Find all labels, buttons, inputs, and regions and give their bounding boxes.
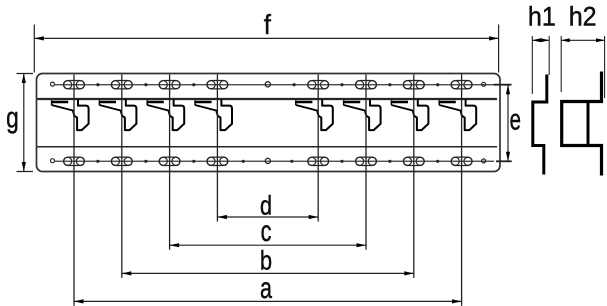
dimension e ticks bbox=[494, 84, 512, 86]
bottom slot row centre line bbox=[55, 160, 494, 162]
dimension e line bbox=[507, 85, 509, 162]
bottom row centre hole bbox=[265, 158, 270, 163]
top row left end hole bbox=[51, 82, 55, 86]
dimension c line bbox=[170, 244, 366, 246]
rail body outline bbox=[37, 74, 501, 172]
bottom row right end hole bbox=[482, 159, 486, 163]
top row slot 3 bbox=[159, 81, 180, 89]
dimension g ticks bbox=[17, 73, 34, 75]
dimension a line bbox=[74, 300, 462, 302]
top row pilot dot bbox=[144, 83, 147, 86]
dimension h1 extension lines bbox=[531, 36, 533, 94]
bottom row slot 7 bbox=[403, 157, 424, 165]
top row slot 5 bbox=[308, 81, 329, 89]
dimension h1 line bbox=[532, 39, 549, 41]
dimension d extension lines bbox=[216, 75, 218, 222]
hook tab 6 bbox=[343, 99, 381, 130]
bottom row left end hole bbox=[51, 159, 55, 163]
hook tab 7 bbox=[391, 99, 429, 130]
bottom row pilot dot bbox=[340, 160, 343, 163]
bottom row slot 4 bbox=[207, 157, 228, 165]
svg-text:g: g bbox=[6, 100, 19, 134]
bottom row pilot dot bbox=[290, 160, 293, 163]
top row right end hole bbox=[482, 82, 486, 86]
svg-text:e: e bbox=[510, 104, 521, 137]
dimension g line bbox=[23, 74, 25, 172]
dimension c extension lines bbox=[169, 75, 171, 250]
dimension b extension lines bbox=[121, 75, 123, 278]
dimension h2 line bbox=[561, 39, 604, 41]
bottom row pilot dot bbox=[192, 160, 195, 163]
top row slot 1 bbox=[64, 81, 85, 89]
svg-text:c: c bbox=[261, 213, 272, 247]
top row slot 8 bbox=[451, 81, 472, 89]
svg-text:a: a bbox=[260, 270, 272, 304]
bottom row pilot dot bbox=[436, 160, 439, 163]
hook tab 4 bbox=[194, 99, 232, 130]
top row pilot dot bbox=[96, 83, 99, 86]
dimension a extension lines bbox=[73, 75, 75, 306]
profile section h1 (Z-rail) bbox=[533, 75, 547, 175]
bottom row slot 5 bbox=[308, 157, 329, 165]
dimension h2 extension lines bbox=[560, 36, 562, 92]
profile section h2 inner web bbox=[587, 102, 590, 146]
top row pilot dot bbox=[388, 83, 391, 86]
top row pilot dot bbox=[293, 83, 296, 86]
svg-text:h1: h1 bbox=[528, 1, 556, 32]
bottom row slot 2 bbox=[111, 157, 132, 165]
top row pilot dot bbox=[340, 83, 343, 86]
dimension f extension lines bbox=[33, 25, 35, 73]
top row slot 2 bbox=[111, 81, 132, 89]
top row slot 6 bbox=[356, 81, 377, 89]
bottom row pilot dot bbox=[388, 160, 391, 163]
bottom row pilot dot bbox=[242, 160, 245, 163]
svg-text:f: f bbox=[264, 9, 272, 40]
top row pilot dot bbox=[192, 83, 195, 86]
top row centre hole bbox=[265, 82, 270, 87]
lower flange line bbox=[37, 146, 497, 148]
hook tab 3 bbox=[147, 99, 185, 130]
hook tab 8 bbox=[439, 99, 477, 130]
dimension f line bbox=[34, 37, 498, 39]
bottom row pilot dot bbox=[96, 160, 99, 163]
dimension d line bbox=[217, 216, 318, 218]
profile section h2 (hat-rail) bbox=[562, 72, 602, 176]
bottom row pilot dot bbox=[144, 160, 147, 163]
bottom row slot 6 bbox=[356, 157, 377, 165]
top row slot 7 bbox=[403, 81, 424, 89]
bottom row slot 8 bbox=[451, 157, 472, 165]
top row slot 4 bbox=[207, 81, 228, 89]
bottom row slot 1 bbox=[64, 157, 85, 165]
hook tab 1 bbox=[51, 99, 89, 130]
hook tab 5 bbox=[295, 99, 333, 130]
svg-text:h2: h2 bbox=[569, 1, 597, 32]
hook tab 2 bbox=[99, 99, 137, 130]
upper flange line bbox=[37, 98, 497, 100]
dimension b line bbox=[122, 272, 414, 274]
bottom row slot 3 bbox=[159, 157, 180, 165]
top row pilot dot bbox=[436, 83, 439, 86]
top slot row centre line bbox=[55, 84, 494, 86]
